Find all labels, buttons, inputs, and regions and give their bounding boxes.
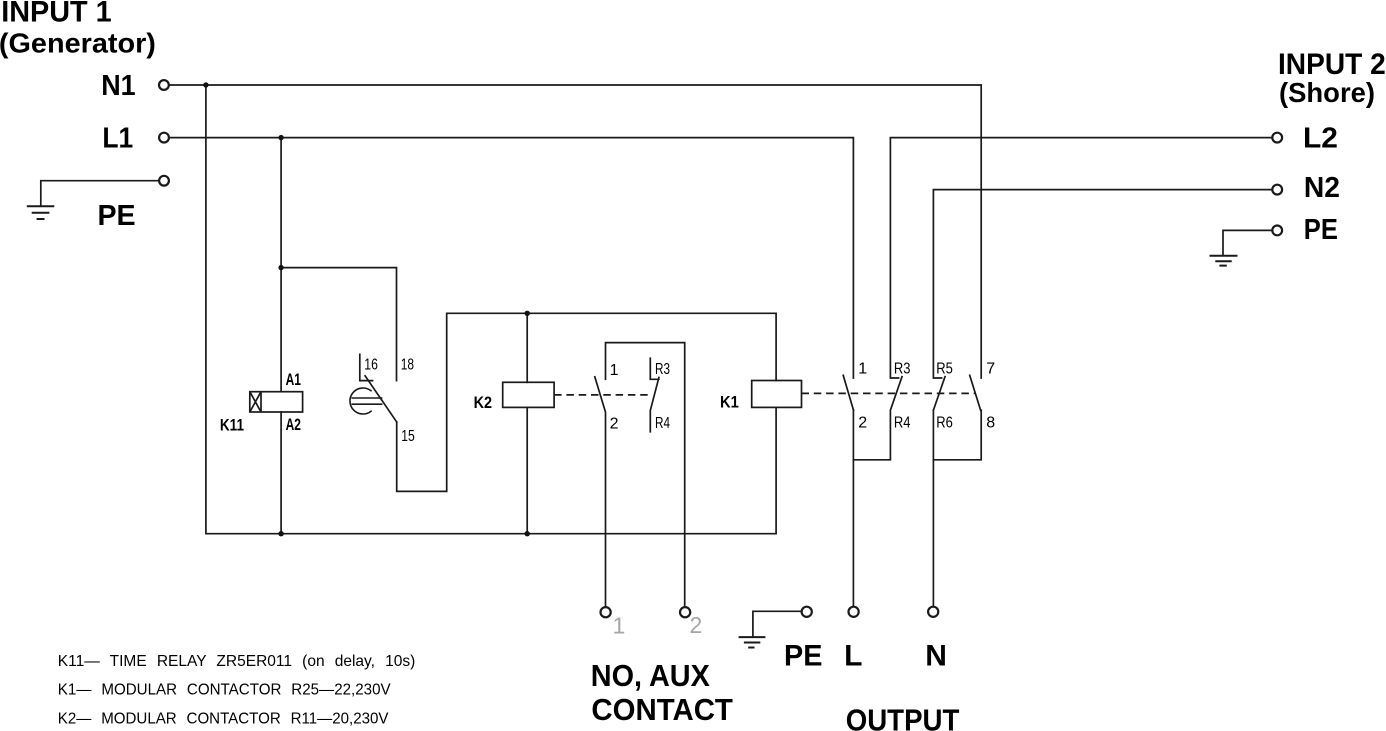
svg-text:2: 2 [610,416,619,433]
svg-text:K11— TIME RELAY ZR5ER011 (on d: K11— TIME RELAY ZR5ER011 (on delay, 10s) [58,653,416,670]
svg-text:1: 1 [858,361,867,378]
svg-text:2: 2 [690,612,703,638]
svg-text:N2: N2 [1304,172,1340,204]
svg-text:K1: K1 [720,393,739,411]
svg-text:R5: R5 [936,361,953,378]
svg-text:K2— MODULAR CONTACTOR R11—20,2: K2— MODULAR CONTACTOR R11—20,230V [58,710,389,727]
svg-text:NO, AUX: NO, AUX [591,658,710,693]
svg-text:K11: K11 [220,417,244,435]
svg-text:PE: PE [1304,214,1338,246]
svg-text:R3: R3 [894,361,911,378]
svg-text:N: N [925,640,947,673]
svg-text:(Shore): (Shore) [1279,77,1375,108]
svg-text:16: 16 [364,356,378,373]
svg-text:R3: R3 [655,361,670,378]
svg-text:CONTACT: CONTACT [591,692,733,727]
svg-text:18: 18 [401,356,414,373]
svg-text:A2: A2 [286,416,301,434]
svg-text:PE: PE [784,640,822,673]
svg-text:L2: L2 [1303,122,1338,154]
svg-text:7: 7 [986,361,995,378]
svg-text:R4: R4 [894,414,911,431]
svg-text:PE: PE [98,200,136,232]
svg-text:A1: A1 [286,371,301,389]
svg-text:L: L [844,640,862,673]
svg-text:15: 15 [401,428,415,445]
svg-text:INPUT 1: INPUT 1 [1,0,112,28]
svg-text:R4: R4 [655,415,670,432]
svg-text:R6: R6 [936,414,953,431]
svg-text:2: 2 [858,414,867,431]
svg-text:1: 1 [613,612,626,638]
svg-text:L1: L1 [102,123,133,155]
svg-text:K2: K2 [474,394,492,412]
svg-text:8: 8 [986,414,995,431]
svg-text:K1— MODULAR CONTACTOR R25—22,2: K1— MODULAR CONTACTOR R25—22,230V [58,682,391,699]
svg-text:1: 1 [610,362,619,379]
svg-text:OUTPUT: OUTPUT [846,702,960,731]
svg-text:N1: N1 [101,70,135,102]
svg-text:(Generator): (Generator) [0,28,156,59]
